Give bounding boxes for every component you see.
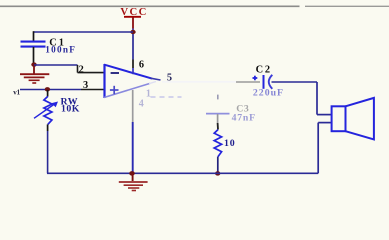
wire output faint (pin5 to C2) (162, 81, 236, 83)
pin 2 of op-amp (78, 72, 105, 74)
wire RW bottom pin (47, 124, 49, 131)
wire C2 left (gray) (236, 81, 260, 83)
wire ground bus (47, 172, 318, 174)
svg-text:2: 2 (79, 64, 84, 75)
svg-text:1: 1 (146, 88, 151, 99)
node R/bus junction (215, 171, 220, 175)
wire speaker lower leg (318, 123, 331, 174)
wire R bottom to bus (217, 157, 219, 174)
op-amp U1 triangle (104, 64, 156, 98)
speaker LS (332, 98, 374, 139)
ground (top-left) (20, 65, 49, 83)
wire v1 input (20, 89, 81, 91)
pin 5 stub at apex (151, 78, 161, 80)
ground (bottom) (119, 173, 148, 190)
svg-text:47nF: 47nF (232, 113, 256, 124)
svg-text:3: 3 (83, 80, 88, 91)
node bus/ground junction (129, 171, 135, 176)
node VCC junction (130, 30, 135, 34)
capacitor C3 plate (206, 113, 230, 115)
wire C1 top pin (vertical, dark) (33, 31, 35, 41)
pin 4 wire (faint upper part) (132, 90, 134, 122)
wire C3 bottom stub (217, 114, 219, 130)
potentiometer RW (34, 96, 58, 124)
wire RW top pin (47, 90, 49, 97)
wire RW leg down to bus (47, 131, 49, 173)
wire junction to C1 top (horizontal) (34, 31, 134, 33)
wire C2 right to speaker elbow (272, 81, 318, 83)
wire VCC rail vertical to junction (132, 29, 134, 33)
wire junction to pin2 elbow (34, 65, 78, 73)
svg-text:4: 4 (139, 99, 144, 110)
svg-text:10K: 10K (61, 104, 80, 115)
svg-text:v1: v1 (13, 89, 20, 96)
resistor R 10 (214, 130, 221, 157)
pin 3 of op-amp (81, 89, 104, 91)
svg-text:100nF: 100nF (45, 44, 76, 54)
wire C1 bottom pin (33, 47, 35, 65)
power symbol VCC (120, 6, 147, 28)
top border line (0, 5, 389, 7)
svg-text:10: 10 (224, 138, 235, 149)
capacitor C1 plates (21, 42, 46, 47)
svg-text:220uF: 220uF (253, 88, 284, 99)
node v1/RW junction (45, 87, 50, 91)
capacitor C2 (polarized) (253, 75, 273, 89)
wire pin1 faint dashed (151, 96, 182, 98)
wire C3 top tick (faint) (217, 95, 219, 100)
svg-text:C2: C2 (256, 64, 272, 75)
wire pin4 to bus (132, 122, 134, 173)
svg-text:6: 6 (139, 60, 144, 71)
pin 6 of op-amp (from VCC junction) (132, 34, 134, 74)
node C1/ground junction (31, 62, 36, 66)
wire speaker upper elbow (317, 82, 332, 115)
